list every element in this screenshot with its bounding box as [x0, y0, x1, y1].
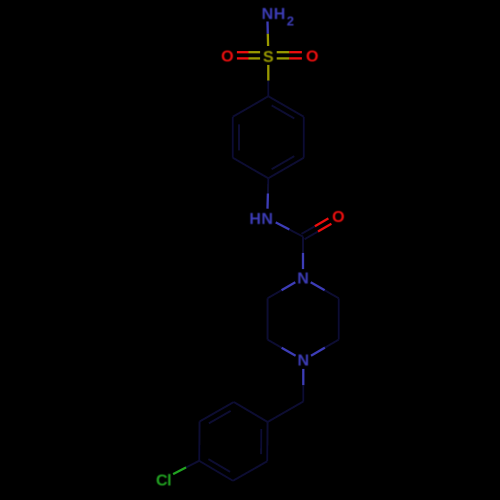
svg-text:H: H	[274, 6, 286, 23]
benzene ring bond C2-C3	[303, 117, 305, 158]
svg-text:O: O	[332, 209, 344, 226]
chlorophenyl ring bond C1=C2	[266, 422, 268, 461]
wire N(sulfonamide)-S bond	[266, 22, 269, 34]
svg-text:N: N	[298, 353, 310, 370]
benzene ring bond C4-C5	[233, 158, 268, 179]
chlorophenyl ring bond C6-C1	[234, 402, 268, 422]
wire N(H)-C(carbonyl) bond	[276, 222, 290, 229]
svg-text:S: S	[263, 49, 274, 66]
benzene ring bond C5=C6	[232, 117, 234, 158]
svg-text:l: l	[167, 473, 171, 490]
wire C4-Cl bond	[186, 461, 199, 468]
S=O double bond right	[277, 57, 290, 59]
benzene ring bond C3=C4	[268, 158, 304, 179]
svg-text:N: N	[262, 6, 274, 23]
wire N4-CH2 benzylic bond	[302, 369, 304, 385]
chlorophenyl ring bond C2-C3	[233, 461, 267, 481]
wire C(carbonyl)-N(piperazine top) bond	[302, 237, 304, 253]
piperazine bond C3-N4	[325, 340, 339, 348]
C=O carbonyl double bond	[305, 232, 319, 240]
svg-text:O: O	[221, 48, 233, 65]
wire S-C1 bond	[267, 65, 269, 81]
benzene ring bond C1=C2	[268, 96, 304, 117]
S=O double bond left	[249, 51, 261, 53]
svg-text:N: N	[261, 211, 273, 228]
piperazine bond N1-C6	[282, 282, 296, 290]
chlorophenyl ring bond C3=C4	[199, 461, 233, 481]
piperazine bond C2-C3	[338, 298, 340, 339]
svg-text:2: 2	[287, 13, 294, 28]
benzene ring bond C6-C1	[233, 96, 268, 117]
wire C4-N(H) bond	[267, 178, 269, 193]
piperazine bond C5-N4	[268, 340, 282, 348]
chlorophenyl ring bond C4-C5	[198, 422, 200, 461]
svg-text:H: H	[249, 211, 261, 228]
chlorophenyl ring bond C5=C6	[200, 402, 234, 422]
svg-text:O: O	[306, 48, 318, 65]
wire CH2-chlorophenyl C1 bond	[268, 402, 304, 423]
piperazine bond C6-C5	[267, 298, 269, 339]
svg-text:N: N	[297, 270, 309, 287]
piperazine bond N1-C2	[311, 282, 325, 290]
